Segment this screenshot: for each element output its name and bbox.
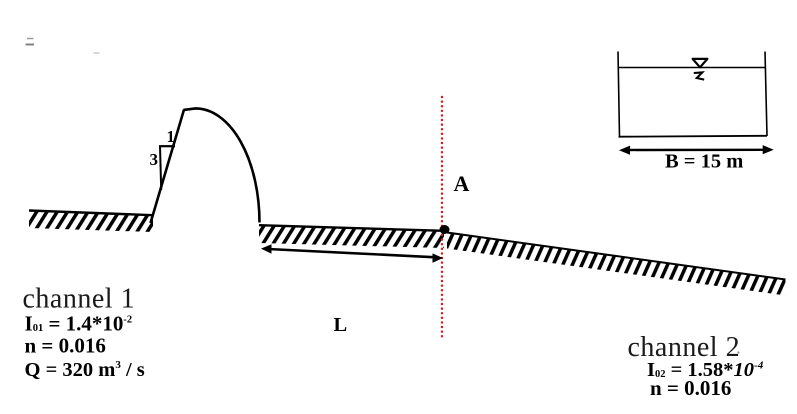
channel 2 bed (hatched, sloping down) <box>447 233 786 296</box>
svg-text:n = 0.016: n = 0.016 <box>25 333 106 357</box>
stray faint mark (equals) top-left <box>26 39 35 45</box>
water level zigzag <box>694 72 704 79</box>
section line A (red dotted vertical) <box>441 97 443 338</box>
node A (black dot) <box>440 225 450 234</box>
width B double arrow <box>619 145 774 155</box>
length L double arrow <box>261 244 443 263</box>
weir spillway curve <box>184 108 260 222</box>
slope triangle vertical side <box>160 146 161 190</box>
svg-text:L: L <box>334 314 348 336</box>
svg-text:1: 1 <box>167 127 175 146</box>
channel bed between weir and section A (hatched) <box>259 225 444 248</box>
svg-text:channel 1: channel 1 <box>23 284 136 315</box>
slope triangle horizontal side <box>159 145 175 147</box>
tank right wall <box>765 52 767 137</box>
svg-text:3: 3 <box>150 150 159 169</box>
svg-text:I01 = 1.4*10-2: I01 = 1.4*10-2 <box>25 311 133 335</box>
svg-text:n = 0.016: n = 0.016 <box>650 376 731 400</box>
cross-section tank: left wall <box>618 52 620 137</box>
channel 1 ground (left hatched bank) <box>29 211 153 233</box>
svg-text:B = 15 m: B = 15 m <box>665 151 743 173</box>
water surface line <box>619 67 766 69</box>
svg-text:Q = 320 m3 / s: Q = 320 m3 / s <box>25 359 145 381</box>
tank bottom <box>619 135 768 138</box>
water level symbol (nabla) <box>693 59 708 67</box>
weir upstream face (slope 1:3) <box>151 110 185 223</box>
svg-text:A: A <box>454 171 470 196</box>
stray faint dot <box>737 351 739 353</box>
stray faint dash <box>94 52 100 54</box>
